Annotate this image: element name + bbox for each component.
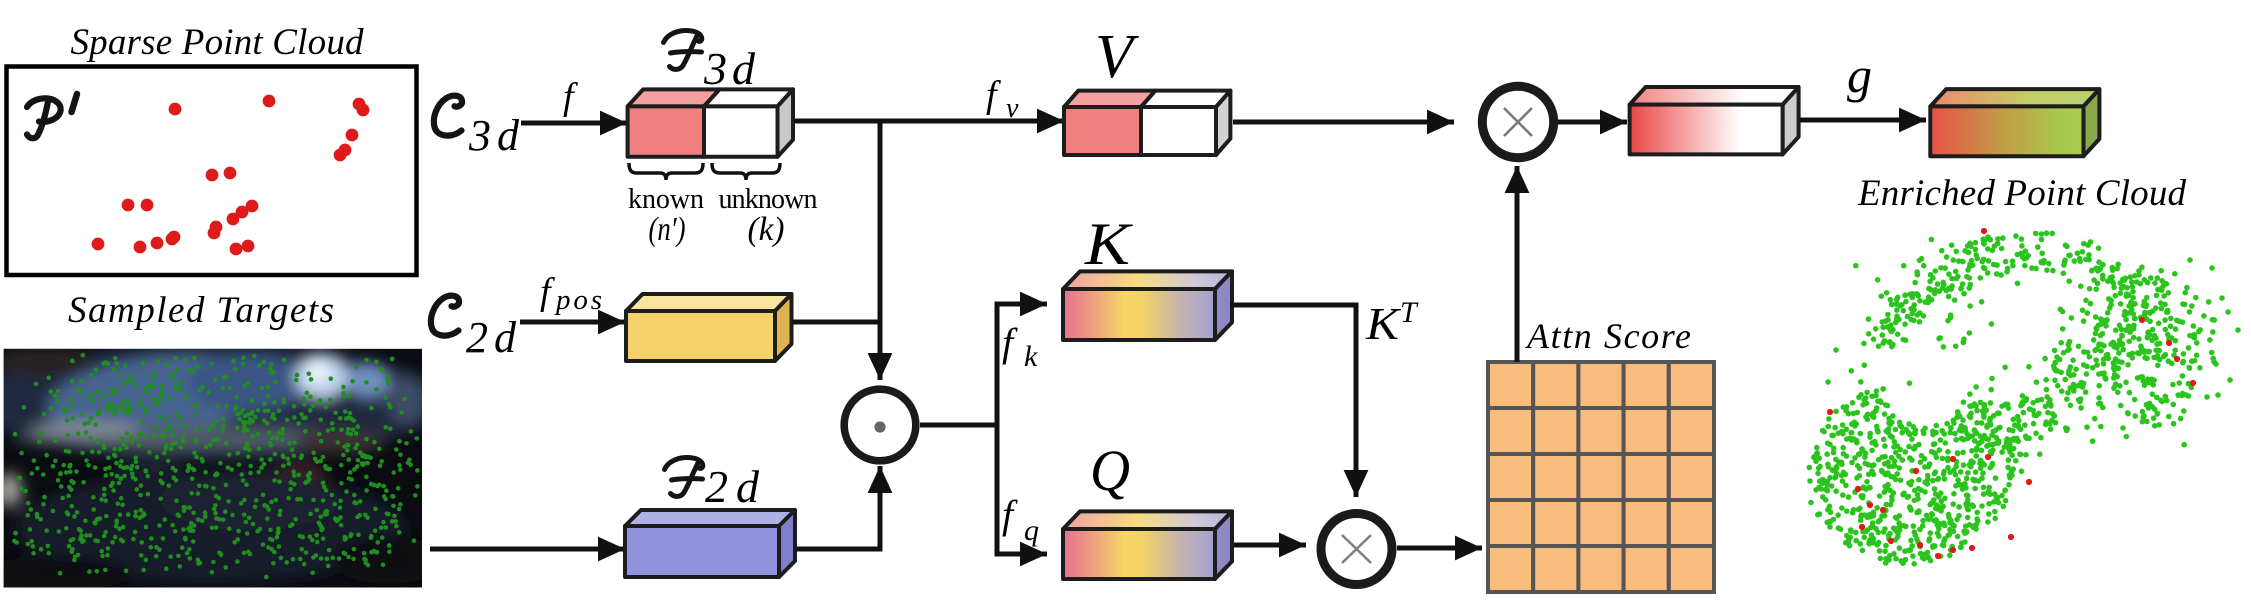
- dot-product circle: [844, 389, 916, 461]
- box F2d (purple): [625, 510, 795, 577]
- svg-text:Sparse Point Cloud: Sparse Point Cloud: [71, 22, 365, 63]
- box F3d (red known / white unknown): [628, 89, 793, 156]
- svg-text:v: v: [1006, 93, 1019, 124]
- wire from sampled targets to F2d: [430, 547, 625, 552]
- wire yellow box to junction: [793, 320, 878, 325]
- box positional encoding (yellow): [626, 294, 792, 361]
- svg-text:Sampled Targets: Sampled Targets: [68, 290, 334, 331]
- arrow f_k: [995, 302, 1048, 307]
- box V (red/white): [1064, 91, 1230, 155]
- arrow f_pos: C2d to yellow box: [520, 320, 625, 325]
- svg-text:f: f: [986, 74, 1001, 116]
- box enriched features (red-green): [1930, 89, 2099, 156]
- svg-text:Attn Score: Attn Score: [1525, 316, 1691, 356]
- arrow Q to times2: [1234, 543, 1306, 548]
- svg-text:K: K: [1084, 211, 1133, 277]
- red points in sparse cloud: [92, 95, 370, 256]
- brace unknown: [712, 163, 780, 180]
- wire grid up to times1: [1515, 166, 1520, 362]
- label F3d (script F): [664, 30, 702, 69]
- wire dot-product to branch: [920, 423, 997, 428]
- svg-text:(k): (k): [748, 211, 785, 248]
- arrow g to enriched box: [1800, 118, 1926, 123]
- times2 circle: [1321, 514, 1392, 585]
- svg-text:2d: 2d: [705, 461, 760, 512]
- junction wire down to dot-product: [878, 121, 883, 380]
- svg-text:g: g: [1847, 47, 1872, 103]
- svg-text:pos: pos: [554, 284, 602, 316]
- svg-text:f: f: [563, 76, 578, 118]
- arrow times2 to attn grid: [1397, 546, 1482, 551]
- svg-text:k: k: [1024, 340, 1038, 373]
- svg-text:f: f: [1002, 320, 1018, 365]
- svg-text:T: T: [1400, 296, 1419, 329]
- svg-text:V: V: [1095, 23, 1139, 91]
- wire F3d to V (f_v): [794, 119, 1064, 124]
- brace known: [629, 163, 703, 180]
- svg-text:(n′): (n′): [649, 211, 686, 248]
- label C3d (script C): [434, 96, 462, 136]
- green sample dots: [12, 353, 420, 579]
- times1 circle: [1482, 86, 1553, 157]
- label F2d (script F): [665, 457, 703, 496]
- symbol P' (script P prime): [27, 94, 77, 138]
- box attended features (red fade): [1630, 87, 1799, 154]
- wire V to times1: [1233, 120, 1454, 125]
- svg-text:K: K: [1365, 298, 1402, 349]
- svg-text:Enriched Point Cloud: Enriched Point Cloud: [1857, 173, 2187, 214]
- svg-text:3d: 3d: [703, 43, 756, 94]
- wire K down to times2 (K^T): [1230, 305, 1356, 497]
- box K (gradient): [1063, 271, 1232, 340]
- svg-text:3d: 3d: [468, 111, 520, 160]
- svg-text:2d: 2d: [466, 313, 517, 362]
- box Q (gradient): [1063, 511, 1232, 579]
- enriched cloud green points: [1807, 230, 2241, 566]
- svg-text:q: q: [1024, 514, 1039, 547]
- arrow f_q: [995, 552, 1048, 557]
- wire F2d up to dot-product: [795, 466, 880, 549]
- enriched cloud red points: [1827, 228, 2196, 559]
- svg-text:f: f: [1002, 492, 1018, 537]
- attn score grid 5x5: [1488, 362, 1714, 592]
- arrow times1 to attended box: [1558, 120, 1627, 125]
- sparse point cloud frame: [7, 67, 417, 276]
- label C2d (script C): [431, 296, 459, 336]
- svg-text:f: f: [540, 271, 555, 313]
- sampled targets blurred image: [0, 342, 445, 592]
- svg-text:Q: Q: [1090, 438, 1130, 503]
- branch vertical: [995, 304, 1000, 554]
- arrow f: C3d to F3d: [521, 121, 627, 126]
